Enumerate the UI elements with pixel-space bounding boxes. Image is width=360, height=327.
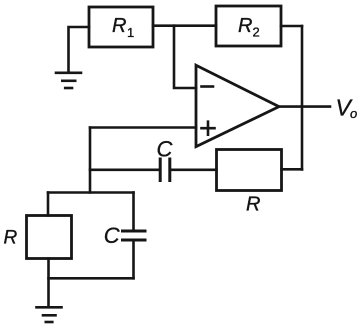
wire capacitor C parallel top: [132, 193, 135, 231]
wire plus node vertical: [89, 128, 92, 193]
label C parallel: [104, 223, 120, 248]
ground bottom: [37, 307, 62, 322]
op-amp inverting pin marker: [202, 85, 214, 88]
wire to R grounded: [47, 193, 50, 216]
wire R2 to feedback node: [281, 25, 302, 28]
wire RC top rail: [48, 191, 134, 194]
wire R1 to R2: [153, 24, 216, 27]
ground: [56, 73, 81, 88]
wire output: [279, 105, 330, 108]
svg-text:1: 1: [127, 25, 134, 40]
wire non-inverting input: [90, 126, 196, 129]
op-amp U1: [196, 65, 279, 146]
svg-text:R: R: [112, 15, 126, 37]
svg-text:R: R: [238, 15, 252, 37]
label R2: [238, 15, 260, 40]
wire R grounded bottom to ground: [47, 259, 50, 307]
wire feedback vertical: [301, 26, 304, 170]
capacitor C parallel: [123, 231, 146, 240]
resistor R grounded: [27, 216, 72, 259]
wire capacitor C parallel bottom: [132, 241, 135, 278]
svg-text:C: C: [157, 137, 173, 162]
wire inverting input: [174, 26, 196, 88]
wire R feedback right: [282, 168, 303, 171]
svg-text:R: R: [4, 228, 18, 249]
svg-text:o: o: [350, 106, 357, 121]
wire capacitor to R feedback: [171, 169, 217, 172]
label Vo: [336, 95, 358, 122]
label R1: [112, 15, 134, 40]
svg-text:R: R: [246, 194, 260, 216]
svg-text:C: C: [104, 223, 120, 248]
label R grounded: [4, 228, 18, 249]
wire RC bottom rail: [49, 277, 134, 280]
resistor R feedback: [217, 150, 282, 191]
label C series: [157, 137, 173, 162]
label R feedback: [246, 194, 260, 216]
capacitor C series: [160, 159, 170, 181]
svg-text:2: 2: [253, 25, 260, 40]
resistor R1: [89, 7, 153, 47]
op-amp non-inverting pin marker: [202, 122, 215, 135]
wire to series capacitor: [90, 169, 159, 172]
resistor R2: [216, 6, 281, 46]
wire R1 left to ground: [69, 27, 90, 72]
